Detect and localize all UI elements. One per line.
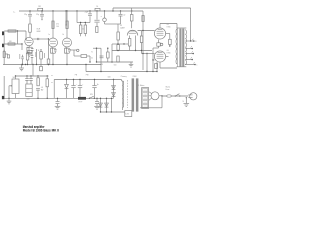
svg-text:500: 500: [26, 99, 29, 101]
svg-text:100: 100: [56, 26, 59, 28]
svg-text:+: +: [60, 102, 61, 104]
svg-text:+: +: [76, 84, 77, 86]
svg-text:32μ: 32μ: [36, 14, 39, 16]
svg-text:1K: 1K: [38, 50, 40, 52]
svg-text:a+: a+: [51, 82, 53, 84]
svg-text:10: 10: [96, 6, 98, 8]
svg-text:GBW: GBW: [36, 31, 40, 33]
svg-text:5k: 5k: [91, 58, 93, 60]
svg-text:02: 02: [82, 29, 84, 31]
svg-text:32μ: 32μ: [24, 14, 27, 16]
svg-text:7n: 7n: [91, 51, 93, 53]
svg-text:HT F: HT F: [79, 102, 83, 104]
svg-text:1a: 1a: [48, 34, 50, 36]
svg-text:a+: a+: [51, 75, 53, 77]
svg-text:Fuse: Fuse: [166, 89, 170, 91]
svg-text:24μF: 24μF: [85, 11, 89, 13]
svg-text:Model B 1986 Bass MK II: Model B 1986 Bass MK II: [23, 128, 59, 132]
svg-text:+55: +55: [41, 87, 44, 89]
svg-text:12AX7: 12AX7: [120, 26, 125, 29]
svg-text:Primary: Primary: [121, 75, 127, 78]
svg-text:a: a: [101, 16, 102, 18]
svg-text:560: 560: [114, 64, 117, 66]
svg-text:GL: GL: [167, 50, 169, 52]
svg-text:8μ: 8μ: [97, 84, 99, 86]
svg-text:+: +: [82, 84, 83, 86]
svg-text:KT66: KT66: [167, 53, 171, 55]
svg-text:GL: GL: [167, 24, 169, 26]
svg-text:KT66: KT66: [167, 27, 171, 29]
svg-text:100: 100: [108, 76, 111, 78]
svg-text:+016: +016: [100, 64, 104, 66]
svg-text:PW: PW: [86, 74, 89, 76]
svg-text:1b: 1b: [62, 34, 64, 36]
svg-text:.02: .02: [123, 15, 125, 17]
svg-text:47k: 47k: [56, 24, 59, 26]
